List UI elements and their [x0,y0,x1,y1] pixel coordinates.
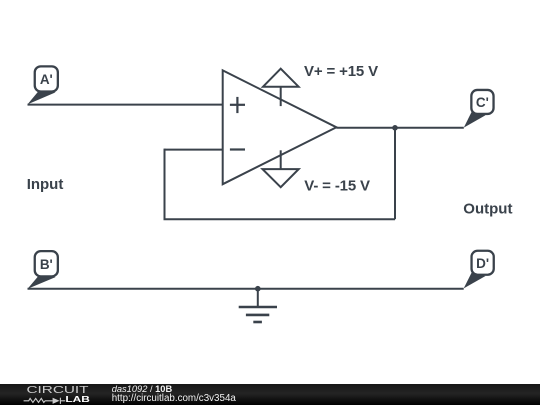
wire input A' to op-amp non-inverting input [28,104,223,106]
svg-text:D': D' [476,256,489,271]
power V- supply arrow symbol [263,150,299,187]
wire feedback right vertical [394,128,396,219]
wire op-amp output to C' [336,127,463,129]
op-amp plus input sign [230,97,245,113]
CircuitLab logo wire resistor diode [24,398,66,404]
wire feedback from inverting input [165,149,223,151]
op-amp U1 body [223,70,337,184]
wire feedback left vertical [164,149,166,220]
power V+ supply arrow symbol [263,69,299,106]
wire feedback bottom horizontal [164,218,396,220]
ground symbol [239,289,277,322]
junction at op-amp output node [392,125,398,131]
wire bottom B' to D' [28,288,464,290]
svg-text:B': B' [40,257,53,272]
node flag C' [464,90,494,128]
svg-text:Input: Input [27,176,64,193]
svg-text:Output: Output [463,200,512,217]
node flag B' [28,251,58,289]
svg-text:LAB: LAB [65,395,90,404]
node flag A' [28,66,58,104]
svg-text:V- = -15 V: V- = -15 V [304,178,370,195]
svg-text:http://circuitlab.com/c3v354a: http://circuitlab.com/c3v354a [112,393,237,404]
svg-text:C': C' [476,95,489,110]
node flag D' [464,251,494,289]
svg-text:A': A' [40,72,53,87]
footer black bar [0,384,540,405]
junction at ground node [255,286,261,292]
op-amp minus input sign [230,148,245,150]
svg-text:V+ = +15 V: V+ = +15 V [304,63,378,80]
